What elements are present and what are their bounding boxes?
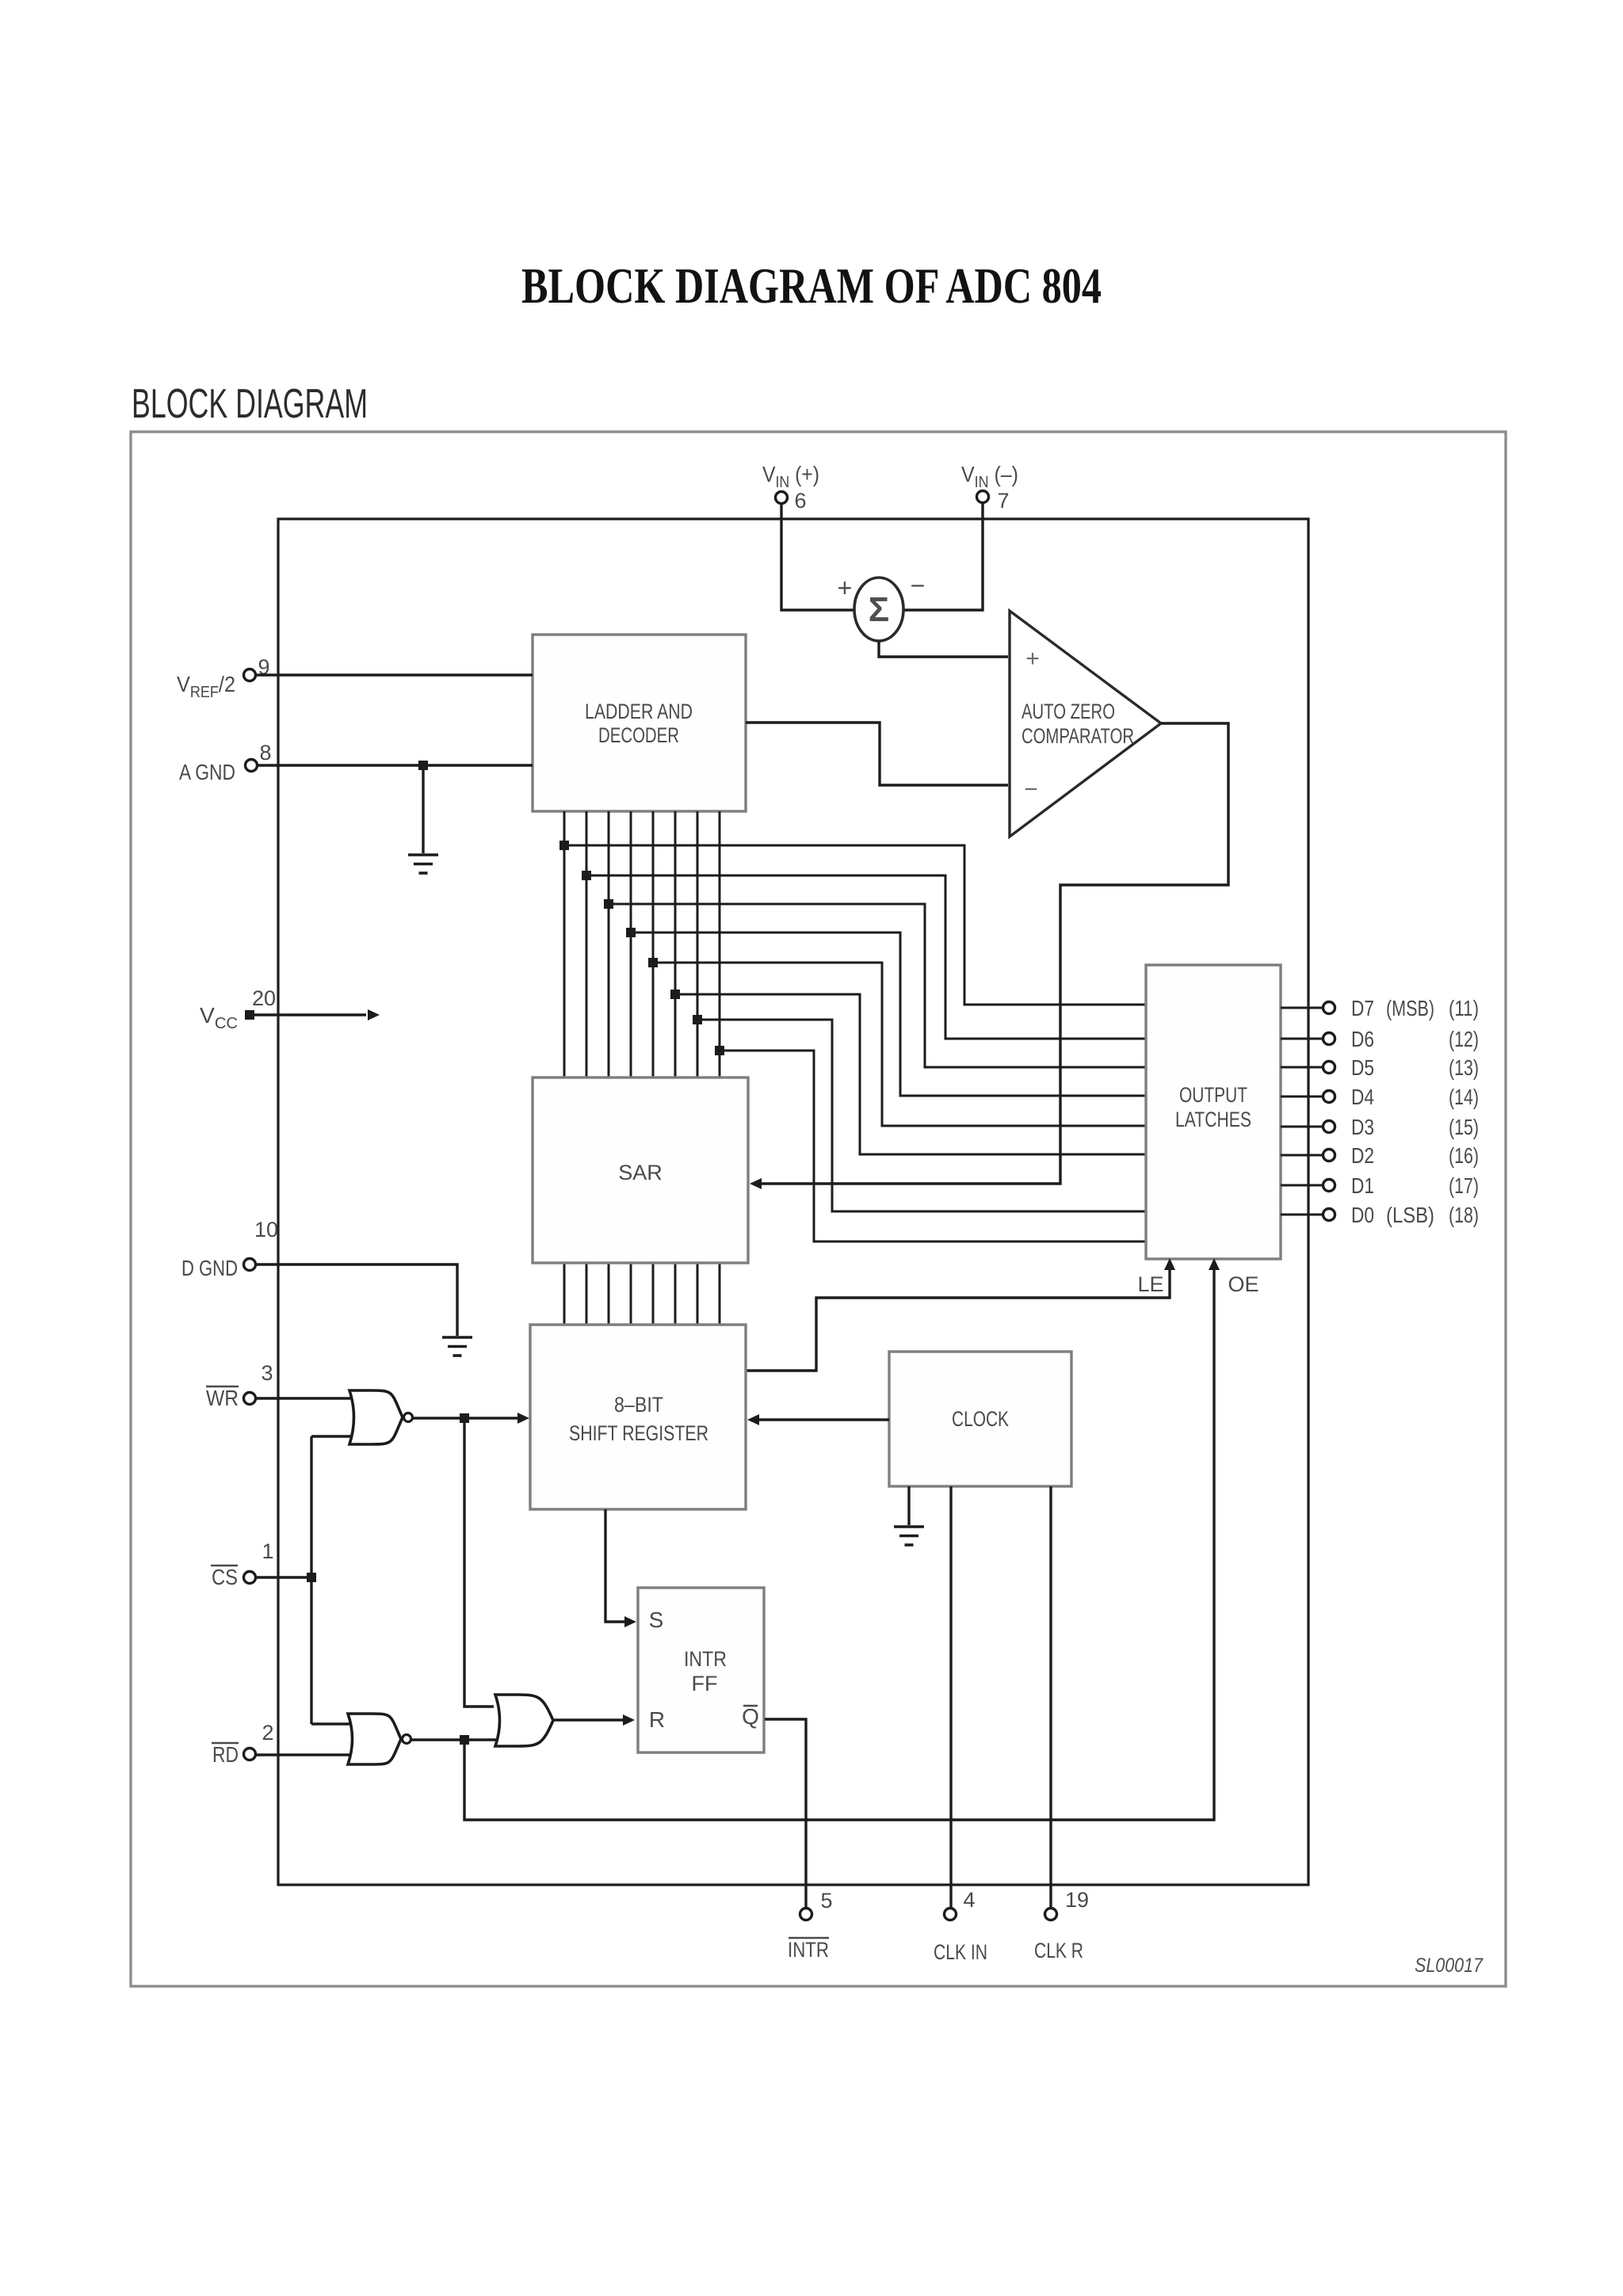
ladder and decoder block <box>533 635 746 811</box>
wire latches to terminal D1 <box>1281 1184 1323 1187</box>
wire INTR FF Qbar to pin 5 <box>765 1719 806 1908</box>
terminal pin 3 WR <box>244 1393 256 1405</box>
wire comparator output to SAR <box>759 723 1228 1184</box>
op-amp auto zero comparator triangle <box>1010 611 1161 837</box>
svg-text:WR: WR <box>206 1386 239 1410</box>
svg-text:D7: D7 <box>1351 996 1374 1020</box>
junction bus tap 3 <box>604 899 613 909</box>
junction CS node <box>307 1573 316 1582</box>
svg-text:(11): (11) <box>1449 996 1479 1020</box>
wire bus SAR-shift register line 1 <box>563 1263 566 1325</box>
wire latches to terminal D7 <box>1281 1007 1323 1009</box>
arrow into SAR input <box>750 1178 762 1189</box>
terminal pin 20 VCC dot <box>245 1010 254 1020</box>
NOR gate U2 (read) <box>348 1714 401 1764</box>
svg-text:SL00017: SL00017 <box>1415 1955 1484 1977</box>
INTR flip-flop block <box>638 1588 764 1753</box>
terminal D5 <box>1323 1062 1335 1074</box>
wire pin6 to summer + <box>781 504 854 610</box>
terminal pin 4 CLK IN <box>945 1909 957 1920</box>
terminal D6 <box>1323 1033 1335 1045</box>
overline FF Qbar <box>743 1705 758 1707</box>
terminal pin 8 A GND <box>246 760 258 772</box>
svg-text:LE: LE <box>1137 1272 1163 1296</box>
wire bus SAR-shift register line 7 <box>697 1263 699 1325</box>
wire bus ladder-SAR line 8 <box>719 811 721 1077</box>
wire latches to terminal D4 <box>1281 1096 1323 1098</box>
terminal pin 19 CLK R <box>1045 1909 1057 1920</box>
wire bus tap 1 to latches D7 <box>564 845 1146 1005</box>
arrow into INTR FF S input <box>624 1616 636 1627</box>
svg-text:6: 6 <box>794 489 806 513</box>
arrow clock into shift register <box>747 1414 759 1425</box>
junction bus tap 2 <box>582 871 591 880</box>
svg-text:19: 19 <box>1065 1888 1089 1912</box>
svg-text:2: 2 <box>262 1721 273 1745</box>
junction bus tap 1 <box>559 841 569 850</box>
wire clock to shift register <box>757 1418 889 1421</box>
wire bus tap 3 to latches D5 <box>609 904 1146 1067</box>
svg-text:D2: D2 <box>1351 1143 1374 1168</box>
wire CLK IN pin 4 <box>949 1486 952 1908</box>
junction bus tap 8 <box>715 1046 724 1055</box>
wire bus tap 5 to latches D3 <box>653 963 1146 1126</box>
svg-text:Σ: Σ <box>869 590 889 629</box>
arrow OE into latches <box>1209 1258 1220 1270</box>
svg-text:(MSB): (MSB) <box>1386 996 1434 1020</box>
wire CS bus vertical <box>310 1436 312 1724</box>
svg-text:−: − <box>1024 776 1038 803</box>
svg-text:S: S <box>649 1608 664 1632</box>
svg-text:(13): (13) <box>1449 1055 1479 1080</box>
svg-text:8–BIT: 8–BIT <box>614 1393 663 1417</box>
svg-text:Q: Q <box>742 1704 759 1729</box>
svg-text:5: 5 <box>820 1889 832 1913</box>
wire RD to read gate <box>256 1753 349 1756</box>
svg-text:(15): (15) <box>1449 1115 1479 1139</box>
analog ground symbol <box>408 855 438 873</box>
wire D GND to ground <box>256 1264 457 1336</box>
terminal pin 10 D GND <box>244 1259 256 1271</box>
NOR gate U1 (write) <box>349 1390 403 1444</box>
svg-text:1: 1 <box>262 1539 273 1563</box>
wire CS to junction <box>256 1576 311 1578</box>
terminal pin 5 INTR <box>800 1909 812 1920</box>
terminal D4 <box>1323 1091 1335 1103</box>
svg-text:20: 20 <box>252 986 276 1010</box>
terminal pin 7 VIN(-) <box>977 491 989 503</box>
svg-text:RD: RD <box>212 1742 239 1767</box>
wire write node down to INTR OR gate <box>464 1418 494 1707</box>
SAR block <box>533 1077 748 1263</box>
wire bus tap 7 to latches D1 <box>697 1020 1146 1211</box>
wire bus SAR-shift register line 8 <box>719 1263 721 1325</box>
junction write gate output node <box>460 1413 469 1423</box>
svg-text:(LSB): (LSB) <box>1386 1203 1434 1227</box>
svg-text:D3: D3 <box>1351 1115 1374 1139</box>
svg-text:DECODER: DECODER <box>598 723 679 747</box>
svg-text:D4: D4 <box>1351 1085 1374 1109</box>
svg-text:(18): (18) <box>1449 1203 1479 1227</box>
terminal pin 2 RD <box>244 1749 256 1760</box>
terminal D7 <box>1323 1002 1335 1014</box>
wire latches to terminal D5 <box>1281 1066 1323 1069</box>
wire summer out to comparator + <box>879 641 1008 657</box>
wire bus SAR-shift register line 5 <box>652 1263 655 1325</box>
svg-text:A GND: A GND <box>179 760 235 784</box>
svg-text:COMPARATOR: COMPARATOR <box>1022 724 1134 748</box>
wire OE from read gate to latches <box>464 1268 1214 1820</box>
summing junction circle <box>854 578 903 641</box>
arrow VCC into chip <box>368 1009 380 1020</box>
wire shift register to INTR FF S <box>605 1509 625 1622</box>
arrow into shift register start <box>517 1413 529 1424</box>
NOR U1 output bubble <box>404 1413 413 1422</box>
terminal D3 <box>1323 1121 1335 1133</box>
overline RD <box>212 1742 239 1745</box>
wire bus tap 8 to latches D0 <box>720 1051 1146 1241</box>
svg-text:(14): (14) <box>1449 1085 1479 1109</box>
svg-text:LATCHES: LATCHES <box>1175 1108 1251 1131</box>
svg-text:3: 3 <box>261 1361 273 1385</box>
wire bus ladder-SAR line 1 <box>563 811 566 1077</box>
overline WR <box>206 1386 239 1388</box>
wire bus SAR-shift register line 2 <box>586 1263 588 1325</box>
junction bus tap 5 <box>648 958 658 967</box>
svg-text:D GND: D GND <box>181 1256 238 1280</box>
svg-text:AUTO ZERO: AUTO ZERO <box>1022 700 1115 723</box>
terminal pin 9 VREF/2 <box>244 669 256 681</box>
wire latches to terminal D2 <box>1281 1154 1323 1157</box>
svg-text:D6: D6 <box>1351 1027 1374 1051</box>
wire write gate output to shift register <box>413 1417 520 1419</box>
wire VREF/2 to ladder <box>256 673 533 676</box>
OR gate U3 (INTR reset) <box>495 1695 553 1746</box>
junction A GND ground tap <box>418 761 428 770</box>
wire bus tap 6 to latches D2 <box>675 994 1146 1154</box>
wire CLK R pin 19 <box>1049 1486 1052 1908</box>
inner chip boundary box <box>278 519 1308 1885</box>
wire WR to write gate <box>256 1397 351 1399</box>
svg-text:CLOCK: CLOCK <box>952 1407 1009 1431</box>
svg-text:BLOCK DIAGRAM: BLOCK DIAGRAM <box>132 381 368 427</box>
junction bus tap 6 <box>670 990 680 999</box>
svg-text:FF: FF <box>692 1672 718 1695</box>
terminal pin 1 CS <box>244 1572 256 1584</box>
arrow LE into latches <box>1164 1258 1175 1270</box>
wire bus SAR-shift register line 3 <box>608 1263 610 1325</box>
wire latches to terminal D3 <box>1281 1126 1323 1128</box>
svg-text:BLOCK DIAGRAM OF ADC 804: BLOCK DIAGRAM OF ADC 804 <box>521 257 1102 314</box>
wire bus ladder-SAR line 7 <box>697 811 699 1077</box>
wire bus SAR-shift register line 6 <box>674 1263 677 1325</box>
wire LE from shift register to latches <box>746 1268 1170 1371</box>
svg-text:R: R <box>649 1707 665 1732</box>
svg-text:4: 4 <box>963 1888 975 1912</box>
svg-text:D0: D0 <box>1351 1203 1374 1227</box>
junction read gate output node <box>460 1735 469 1745</box>
wire VCC supply <box>250 1013 366 1016</box>
terminal pin 6 VIN(+) <box>776 492 788 504</box>
svg-text:OUTPUT: OUTPUT <box>1179 1083 1247 1107</box>
wire bus tap 2 to latches D6 <box>586 875 1146 1039</box>
terminal D0 <box>1323 1209 1335 1221</box>
clock block <box>889 1352 1071 1486</box>
wire bus ladder-SAR line 5 <box>652 811 655 1077</box>
svg-text:+: + <box>838 574 853 602</box>
wire latches to terminal D0 <box>1281 1214 1323 1216</box>
junction bus tap 4 <box>626 928 636 937</box>
wire read gate output to OR gate <box>411 1738 496 1741</box>
svg-text:−: − <box>911 571 926 600</box>
8-bit shift register block <box>530 1325 746 1509</box>
digital ground symbol <box>442 1337 472 1356</box>
svg-text:CS: CS <box>212 1565 238 1589</box>
svg-text:(12): (12) <box>1449 1027 1479 1051</box>
svg-text:(17): (17) <box>1449 1173 1479 1198</box>
svg-text:+: + <box>1025 646 1040 672</box>
svg-text:10: 10 <box>254 1218 278 1241</box>
wire A GND down to ground <box>422 765 424 853</box>
svg-text:CLK R: CLK R <box>1034 1939 1083 1962</box>
svg-text:SHIFT REGISTER: SHIFT REGISTER <box>569 1421 708 1445</box>
wire latches to terminal D6 <box>1281 1038 1323 1040</box>
overline CS <box>211 1565 238 1567</box>
wire OR gate output to INTR FF R <box>553 1718 625 1721</box>
junction bus tap 7 <box>693 1015 702 1024</box>
svg-text:INTR: INTR <box>788 1938 829 1962</box>
wire clock to ground <box>907 1486 910 1525</box>
svg-text:CLK IN: CLK IN <box>934 1940 987 1964</box>
wire CS to read gate upper input <box>311 1722 349 1725</box>
svg-text:LADDER AND: LADDER AND <box>585 700 693 723</box>
overline INTR pin <box>789 1937 829 1939</box>
wire bus ladder-SAR line 4 <box>630 811 632 1077</box>
svg-text:D5: D5 <box>1351 1055 1374 1080</box>
wire pin7 to summer - <box>904 503 983 610</box>
wire bus tap 4 to latches D4 <box>631 933 1146 1096</box>
wire A GND to ladder <box>258 764 533 766</box>
output latches block <box>1146 965 1281 1259</box>
arrow into INTR FF R input <box>623 1714 635 1726</box>
svg-text:(16): (16) <box>1449 1143 1479 1168</box>
wire bus ladder-SAR line 6 <box>674 811 677 1077</box>
wire bus ladder-SAR line 2 <box>586 811 588 1077</box>
terminal D2 <box>1323 1150 1335 1161</box>
svg-text:D1: D1 <box>1351 1173 1374 1198</box>
clock ground symbol <box>894 1527 924 1545</box>
NOR U2 output bubble <box>403 1735 411 1744</box>
svg-text:8: 8 <box>259 741 271 765</box>
wire bus ladder-SAR line 3 <box>608 811 610 1077</box>
svg-text:SAR: SAR <box>618 1161 663 1184</box>
terminal D1 <box>1323 1180 1335 1192</box>
wire bus SAR-shift register line 4 <box>630 1263 632 1325</box>
svg-text:7: 7 <box>997 489 1009 513</box>
wire CS to write gate lower input <box>311 1435 351 1437</box>
svg-text:INTR: INTR <box>684 1647 727 1671</box>
svg-text:OE: OE <box>1228 1272 1258 1296</box>
wire ladder out to comparator - <box>746 723 1008 785</box>
